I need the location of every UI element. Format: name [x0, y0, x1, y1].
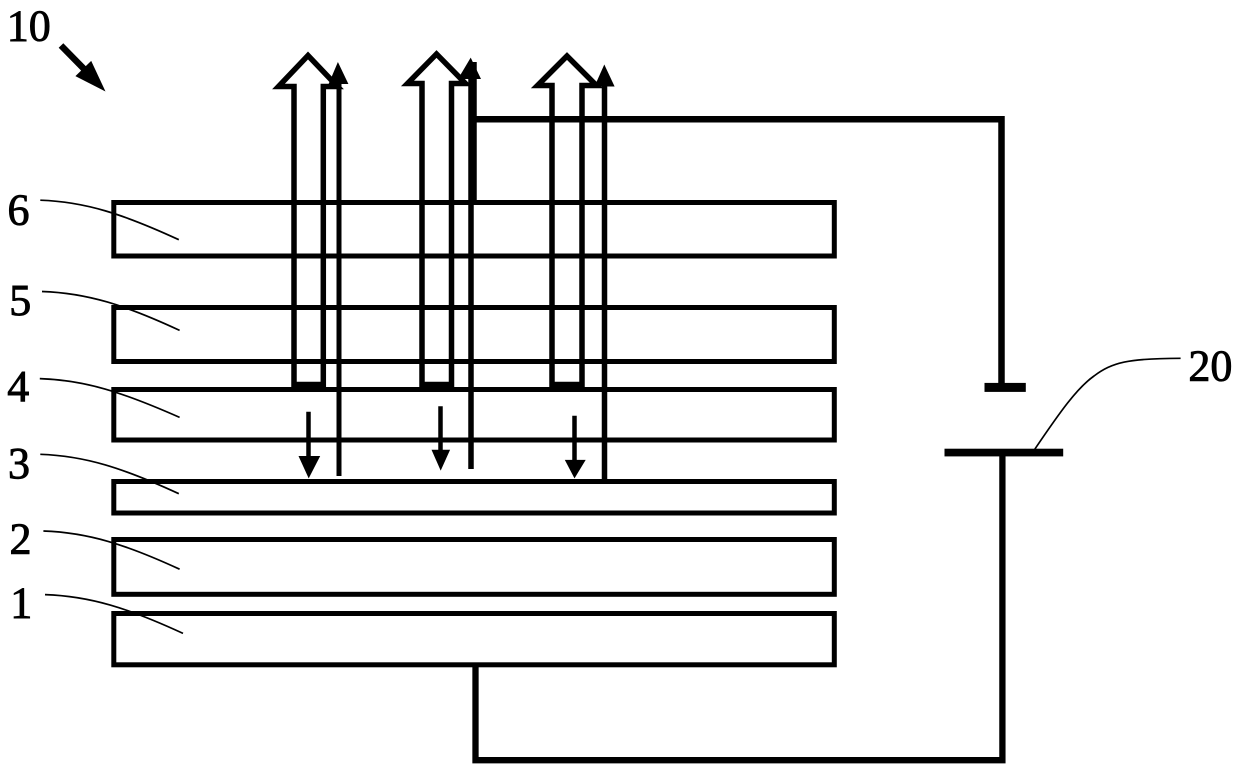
svg-text:5: 5 [9, 276, 31, 325]
svg-text:10: 10 [7, 2, 51, 51]
svg-text:2: 2 [10, 515, 32, 564]
svg-text:6: 6 [8, 185, 30, 234]
svg-text:3: 3 [8, 439, 30, 488]
svg-text:4: 4 [7, 362, 29, 411]
svg-text:20: 20 [1188, 341, 1232, 390]
svg-text:1: 1 [10, 579, 32, 628]
